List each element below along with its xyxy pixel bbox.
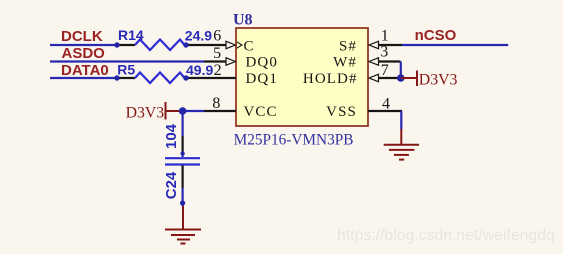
svg-text:2: 2 bbox=[214, 62, 222, 79]
svg-text:S#: S# bbox=[339, 38, 357, 54]
svg-text:nCSO: nCSO bbox=[415, 27, 457, 44]
svg-text:ASDO: ASDO bbox=[62, 45, 106, 62]
svg-text:https://blog.csdn.net/weifengd: https://blog.csdn.net/weifengdq bbox=[337, 227, 555, 244]
junction node VCC/D3V3 bbox=[179, 107, 187, 115]
svg-text:24.9: 24.9 bbox=[185, 28, 212, 44]
svg-text:3: 3 bbox=[380, 44, 388, 61]
resistor R14 bbox=[117, 40, 185, 51]
wire W# down to HOLD# bbox=[400, 62, 402, 79]
wire VCC junction down to C24 bbox=[182, 111, 184, 136]
wire DATA0 bbox=[50, 77, 117, 79]
svg-text:VSS: VSS bbox=[326, 104, 357, 120]
pin 6 clock chevron bbox=[237, 42, 242, 48]
chip U8 body bbox=[236, 28, 368, 126]
power port D3V3 left bbox=[166, 102, 183, 120]
svg-text:DQ1: DQ1 bbox=[246, 71, 278, 87]
wire DCLK bbox=[50, 44, 117, 46]
svg-text:1: 1 bbox=[381, 27, 389, 44]
svg-text:HOLD#: HOLD# bbox=[303, 71, 358, 87]
svg-text:C24: C24 bbox=[163, 171, 180, 199]
pin 7 arrow bbox=[369, 74, 379, 81]
pin VCC bbox=[204, 110, 236, 112]
wire ASDO black segment to pin DQ0 bbox=[204, 60, 226, 62]
junction node R5/wire bbox=[183, 75, 188, 80]
svg-text:DCLK: DCLK bbox=[61, 28, 103, 45]
wire VSS down bbox=[400, 111, 402, 129]
wire VCC blue bbox=[183, 110, 204, 112]
pin VSS bbox=[368, 110, 402, 112]
junction node W#/HOLD# bbox=[397, 74, 405, 82]
svg-text:5: 5 bbox=[213, 45, 221, 62]
wire ASDO bbox=[50, 60, 204, 62]
svg-text:VCC: VCC bbox=[244, 104, 278, 120]
junction node R14/wire bbox=[183, 42, 188, 47]
pin HOLD# bbox=[379, 77, 401, 79]
junction node DCLK/R14 bbox=[114, 42, 119, 47]
svg-text:8: 8 bbox=[212, 95, 220, 112]
pin 5 arrow bbox=[226, 58, 236, 65]
svg-text:104: 104 bbox=[163, 123, 180, 149]
svg-text:M25P16-VMN3PB: M25P16-VMN3PB bbox=[234, 132, 354, 149]
wire resistor R14 to pin C bbox=[186, 44, 226, 46]
pin W# bbox=[379, 60, 401, 62]
svg-text:D3V3: D3V3 bbox=[126, 105, 165, 122]
svg-text:7: 7 bbox=[381, 62, 389, 79]
svg-text:49.9: 49.9 bbox=[186, 62, 213, 78]
svg-text:R5: R5 bbox=[117, 62, 135, 78]
wire C24 to ground bbox=[182, 188, 184, 206]
ground right bbox=[384, 129, 419, 160]
junction node DATA0/R5 bbox=[114, 75, 119, 80]
svg-text:R14: R14 bbox=[118, 27, 144, 43]
power port D3V3 right bbox=[401, 71, 417, 87]
junction node C24/ground bbox=[180, 200, 185, 205]
wire resistor R5 to pin DQ1 bbox=[186, 77, 236, 79]
svg-text:DATA0: DATA0 bbox=[61, 62, 109, 79]
svg-text:4: 4 bbox=[382, 95, 390, 112]
svg-text:6: 6 bbox=[213, 28, 221, 45]
pin 6 arrow bbox=[226, 41, 236, 48]
pin end dot C24 top bbox=[180, 151, 184, 155]
resistor R5 bbox=[117, 73, 185, 84]
pin 1 arrow bbox=[369, 41, 379, 48]
ground left bbox=[165, 206, 201, 244]
svg-text:U8: U8 bbox=[233, 12, 253, 29]
pin S# bbox=[379, 44, 403, 46]
svg-text:C: C bbox=[244, 38, 254, 54]
svg-text:W#: W# bbox=[333, 55, 357, 71]
wire nCSO bbox=[402, 44, 508, 46]
capacitor C24 bbox=[165, 136, 200, 188]
svg-text:D3V3: D3V3 bbox=[419, 71, 458, 88]
pin 3 arrow bbox=[369, 58, 379, 65]
svg-text:DQ0: DQ0 bbox=[246, 55, 278, 71]
